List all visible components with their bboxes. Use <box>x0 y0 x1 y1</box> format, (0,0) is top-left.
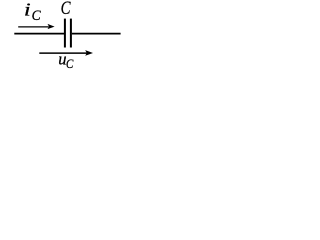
svg-text:C: C <box>32 8 42 24</box>
svg-text:C: C <box>61 0 71 19</box>
svg-text:i: i <box>24 0 31 19</box>
svg-text:C: C <box>66 56 74 71</box>
